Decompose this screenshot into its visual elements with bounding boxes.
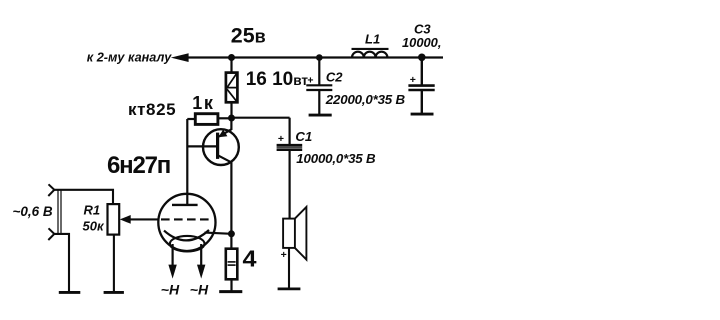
wire collector down to cathode node and R4 (230, 162, 232, 250)
svg-text:10000,0*35 В: 10000,0*35 В (296, 151, 376, 166)
heater lead right with arrow (200, 244, 202, 270)
capacitor C2 plates (306, 84, 332, 86)
wire input return down (54, 234, 69, 292)
svg-text:6н27п: 6н27п (107, 152, 170, 179)
svg-text:50к: 50к (83, 219, 105, 234)
junction rail / R16 (228, 54, 235, 61)
transistor Q1 collector (218, 155, 232, 162)
junction rail / C3 (418, 54, 426, 62)
junction rail / C2 (316, 54, 323, 61)
resistor 1к (195, 114, 218, 125)
capacitor C1 plates (277, 144, 303, 147)
svg-text:R1: R1 (84, 203, 101, 218)
wire speaker to ground bar (288, 248, 290, 289)
ground bar under input (59, 291, 81, 294)
ground bar under C3 (411, 113, 434, 116)
wire R4 to ground bar (230, 279, 232, 291)
svg-text:+: + (278, 133, 284, 145)
wire R16 to base node (230, 102, 232, 118)
heater lead left with arrow (172, 244, 174, 270)
transistor Q1 base bar (216, 133, 219, 159)
tube V1 envelope (158, 194, 215, 251)
ground bar under R1 (104, 291, 124, 294)
tube V1 cathode arc (164, 230, 209, 240)
svg-text:L1: L1 (365, 31, 380, 46)
potentiometer R1 wiper arrow (120, 215, 131, 224)
junction cathode node (228, 230, 235, 237)
svg-text:4: 4 (243, 246, 257, 272)
input connector bottom prong (48, 228, 54, 240)
wire wiper to tube grid (130, 218, 160, 220)
svg-text:к 2-му каналу: к 2-му каналу (87, 50, 172, 64)
wire input hot to R1 top (54, 190, 113, 204)
arrow to 2nd channel (171, 53, 189, 62)
wire anode riser (1k to tube anode) (186, 119, 188, 205)
transistor Q1 кт825 body (203, 129, 239, 165)
wire 1k left lead (187, 118, 196, 120)
wire base lead (187, 145, 217, 147)
resistor 16 ohm 10W (fusible) (226, 73, 238, 103)
potentiometer R1 body (108, 204, 120, 235)
svg-text:+: + (281, 249, 287, 261)
ground bar under speaker (278, 288, 301, 291)
svg-text:~0,6 В: ~0,6 В (13, 204, 53, 219)
svg-text:C1: C1 (295, 129, 312, 144)
tube V1 anode plate (172, 204, 198, 206)
svg-text:25в: 25в (231, 24, 266, 48)
transistor Q1 emitter with arrow (219, 129, 231, 136)
svg-text:~Н: ~Н (190, 282, 209, 298)
capacitor C1 top lead (289, 118, 291, 146)
tube V1 grid (dashed) (161, 218, 209, 220)
capacitor C2 bottom lead (318, 90, 320, 114)
wire 1k right lead (218, 117, 232, 119)
ground bar under R4 (219, 290, 242, 293)
speaker BA1 horn (295, 207, 307, 260)
svg-text:кт825: кт825 (128, 100, 176, 119)
wire base node to C1 (232, 117, 290, 119)
svg-text:~Н: ~Н (161, 282, 180, 298)
capacitor C1 bottom lead to speaker (289, 150, 291, 219)
tube V1 heater loop (170, 236, 205, 252)
wire emitter up to base node (230, 118, 232, 130)
wire rail to R16 (230, 58, 232, 74)
wire R1 bottom lead (113, 235, 115, 292)
wire top supply rail (186, 56, 443, 58)
capacitor C3 top lead (421, 57, 423, 85)
input connector top prong (48, 184, 54, 196)
junction base node (228, 115, 235, 122)
ground bar under C2 (309, 114, 332, 117)
capacitor C3 bottom lead (421, 90, 423, 113)
inductor L1 core (352, 48, 389, 50)
capacitor C2 top lead (318, 58, 320, 86)
svg-text:C2: C2 (326, 70, 343, 85)
svg-text:1к: 1к (192, 93, 214, 113)
inductor L1 winding (352, 52, 387, 58)
wire cathode lead to node (205, 233, 232, 234)
svg-text:16 10вт: 16 10вт (246, 69, 309, 90)
input cable shield (double line) (57, 190, 59, 234)
svg-text:22000,0*35 В: 22000,0*35 В (325, 92, 406, 107)
speaker BA1 frame (283, 219, 295, 248)
capacitor C3 plates (408, 84, 434, 87)
resistor R4 (226, 249, 238, 280)
